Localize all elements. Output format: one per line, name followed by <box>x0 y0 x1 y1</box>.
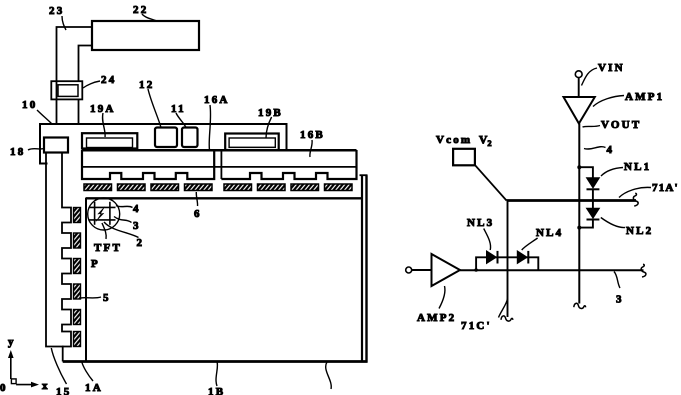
leader for VIN <box>582 68 598 86</box>
svg-text:22: 22 <box>133 4 148 16</box>
leader for 4 <box>584 147 606 149</box>
leader for 2 <box>104 222 139 238</box>
wire node to NL2 <box>592 200 594 208</box>
Vcom box <box>453 149 475 166</box>
op-amp AMP1 <box>564 97 595 124</box>
svg-text:6: 6 <box>194 208 202 220</box>
svg-text:VOUT: VOUT <box>601 119 641 131</box>
leader for 22 <box>142 14 157 21</box>
svg-text:1B: 1B <box>208 386 225 395</box>
leader for NL1 <box>601 168 623 177</box>
leader for VOUT <box>583 126 601 128</box>
svg-text:23: 23 <box>49 5 64 17</box>
break squiggle at line 3 end <box>641 264 646 277</box>
svg-text:5: 5 <box>103 292 111 304</box>
panel 1B outer right edge <box>365 175 367 362</box>
svg-text:4: 4 <box>133 203 141 215</box>
chip 19A outer <box>82 133 137 148</box>
leader for AMP2 <box>439 286 445 309</box>
svg-text:12: 12 <box>139 79 154 91</box>
svg-text:10: 10 <box>22 99 37 111</box>
gate line 4 segments <box>89 206 116 208</box>
svg-text:1A: 1A <box>85 382 103 394</box>
node junction bottom <box>577 226 581 230</box>
break squiggle at wire 4 bottom <box>574 303 586 308</box>
substrate region 10 outline <box>40 124 287 164</box>
op-amp AMP2 <box>432 254 461 286</box>
16A band inner line <box>82 166 357 168</box>
flex strip 15 left edge <box>46 153 63 362</box>
diode NL1 <box>587 178 600 188</box>
pixel circle detail <box>88 198 120 230</box>
leader for 12 <box>148 89 161 128</box>
svg-text:VIN: VIN <box>598 62 625 74</box>
diode NL2 <box>587 208 600 218</box>
terminal VIN <box>575 71 582 78</box>
svg-text:15: 15 <box>56 386 71 395</box>
svg-text:Vcom: Vcom <box>436 134 472 146</box>
node junction top <box>577 165 581 169</box>
svg-text:NL2: NL2 <box>626 225 653 237</box>
wire ribbon 23 (flex cable from box 22) <box>57 27 93 124</box>
driver block 16B outline with comb bottom <box>221 150 356 179</box>
leader for 71C' <box>499 299 508 318</box>
wire bypass loop <box>476 257 538 270</box>
svg-text:P: P <box>91 258 100 270</box>
gate pad 5 group (hatched) <box>74 208 81 223</box>
chip 19B outer <box>225 134 279 151</box>
svg-text:V2: V2 <box>479 135 492 149</box>
break squiggle at 71A' end <box>633 193 638 206</box>
axis y arrow <box>10 354 12 379</box>
svg-text:NL4: NL4 <box>536 227 563 239</box>
leader for 23 <box>62 16 66 30</box>
leader for 18 <box>28 149 44 151</box>
component 12 <box>155 128 177 148</box>
leader for 71A' <box>619 187 651 197</box>
wire line 3 (AMP2 output) <box>460 269 644 271</box>
svg-text:NL1: NL1 <box>624 161 651 173</box>
leader for NL4 <box>522 238 538 250</box>
svg-text:4: 4 <box>607 144 615 156</box>
wire NL1 to node 71A' <box>592 189 594 200</box>
display area top edge <box>86 197 363 199</box>
connector 24 on ribbon <box>51 81 82 99</box>
break squiggle at 71C' bottom <box>501 316 513 321</box>
leader for 15 <box>51 348 66 384</box>
svg-text:11: 11 <box>171 103 186 115</box>
svg-text:18: 18 <box>10 146 25 158</box>
svg-text:AMP1: AMP1 <box>625 91 664 103</box>
panel 1B inner right edge <box>361 176 363 361</box>
wire input to AMP2 <box>412 269 432 271</box>
block gap between 16A and 16B <box>220 150 222 180</box>
svg-text:19B: 19B <box>258 107 283 119</box>
leader for 4 <box>116 206 133 208</box>
chip 19B inner <box>229 138 275 147</box>
leader for NL3 <box>484 229 491 251</box>
chip 19A inner <box>87 138 133 148</box>
terminal AMP2 input <box>406 267 412 273</box>
flex strip 15 castellated right edge <box>62 153 71 347</box>
svg-text:16B: 16B <box>300 129 325 141</box>
svg-text:3: 3 <box>616 294 624 306</box>
axis x arrow <box>16 384 35 386</box>
svg-text:71C': 71C' <box>461 320 492 332</box>
diode NL3 <box>487 251 497 264</box>
node line 71A' (bold) <box>507 199 637 202</box>
diode NL4 <box>517 251 527 264</box>
svg-text:3: 3 <box>133 220 141 232</box>
node junction loop left <box>474 268 478 272</box>
display area left edge <box>85 198 87 361</box>
leader for 3 <box>614 272 620 289</box>
driver block 16A outline with comb bottom <box>82 150 214 180</box>
svg-text:24: 24 <box>101 74 116 86</box>
svg-text:0: 0 <box>0 382 8 394</box>
leader for 3 <box>114 217 132 223</box>
leader for 6 <box>196 192 197 206</box>
svg-text:TFT: TFT <box>94 242 122 254</box>
leader for 24 <box>83 81 100 88</box>
TFT symbol (bolt) <box>96 207 105 222</box>
leader for 1B <box>216 362 217 387</box>
wire diagonal Vcom to node <box>475 165 507 201</box>
terminal box 18 <box>44 138 68 153</box>
step to panel corner <box>360 174 368 176</box>
axis origin square <box>11 379 16 384</box>
svg-text:71A': 71A' <box>652 182 679 194</box>
panel bottom edge <box>63 360 368 363</box>
wire NL2 back to main line <box>579 220 593 228</box>
leader for AMP1 <box>593 96 624 107</box>
svg-text:2: 2 <box>137 237 145 249</box>
wire VIN to AMP1 <box>578 78 580 97</box>
wire 4 (AMP1 output down) <box>578 124 580 304</box>
leader for 19B <box>266 117 272 138</box>
wire branch to diodes <box>579 167 593 178</box>
leader for 16A <box>209 105 210 150</box>
leader for TFT <box>102 223 106 239</box>
leader for 16B <box>310 140 312 157</box>
leader for 10 <box>37 110 52 124</box>
svg-text:16A: 16A <box>204 94 230 106</box>
leader for 1A <box>82 362 93 382</box>
16A band top line <box>82 149 357 152</box>
source line 3 segments <box>94 202 96 225</box>
component 11 <box>182 128 198 148</box>
svg-text:x: x <box>42 380 50 392</box>
leader bottom right <box>326 362 332 389</box>
leader for NL2 <box>601 218 625 228</box>
transfer pads 6 row (hatched) <box>84 184 112 191</box>
leader for 5 <box>81 297 102 298</box>
box 22 (external circuit block) <box>92 21 199 50</box>
svg-text:AMP2: AMP2 <box>417 312 456 324</box>
wire 71C' vertical <box>507 201 509 318</box>
leader for 11 <box>176 113 186 128</box>
svg-text:y: y <box>8 336 16 348</box>
svg-text:NL3: NL3 <box>467 217 494 229</box>
leader for 19A <box>103 113 106 137</box>
